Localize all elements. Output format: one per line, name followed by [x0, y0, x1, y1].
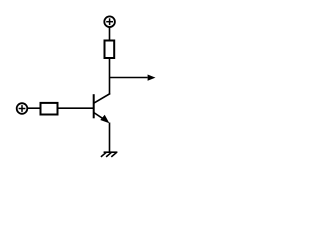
transistor Q1 emitter lead with arrow	[94, 113, 110, 124]
resistor R2 (base)	[41, 103, 58, 115]
wire R2 to base	[58, 107, 94, 109]
resistor R1 (collector load)	[105, 41, 115, 59]
supply terminal (+) top	[104, 16, 115, 27]
wire input to R2	[28, 107, 42, 109]
ground	[101, 152, 118, 157]
output arrow	[110, 75, 156, 81]
wire R1 to collector corner	[109, 58, 111, 94]
wire emitter to ground	[109, 123, 111, 153]
wire supply to R1	[109, 27, 111, 41]
transistor Q1 collector lead	[94, 94, 111, 104]
input terminal (+)	[17, 103, 28, 114]
transistor Q1 base bar	[93, 94, 95, 118]
